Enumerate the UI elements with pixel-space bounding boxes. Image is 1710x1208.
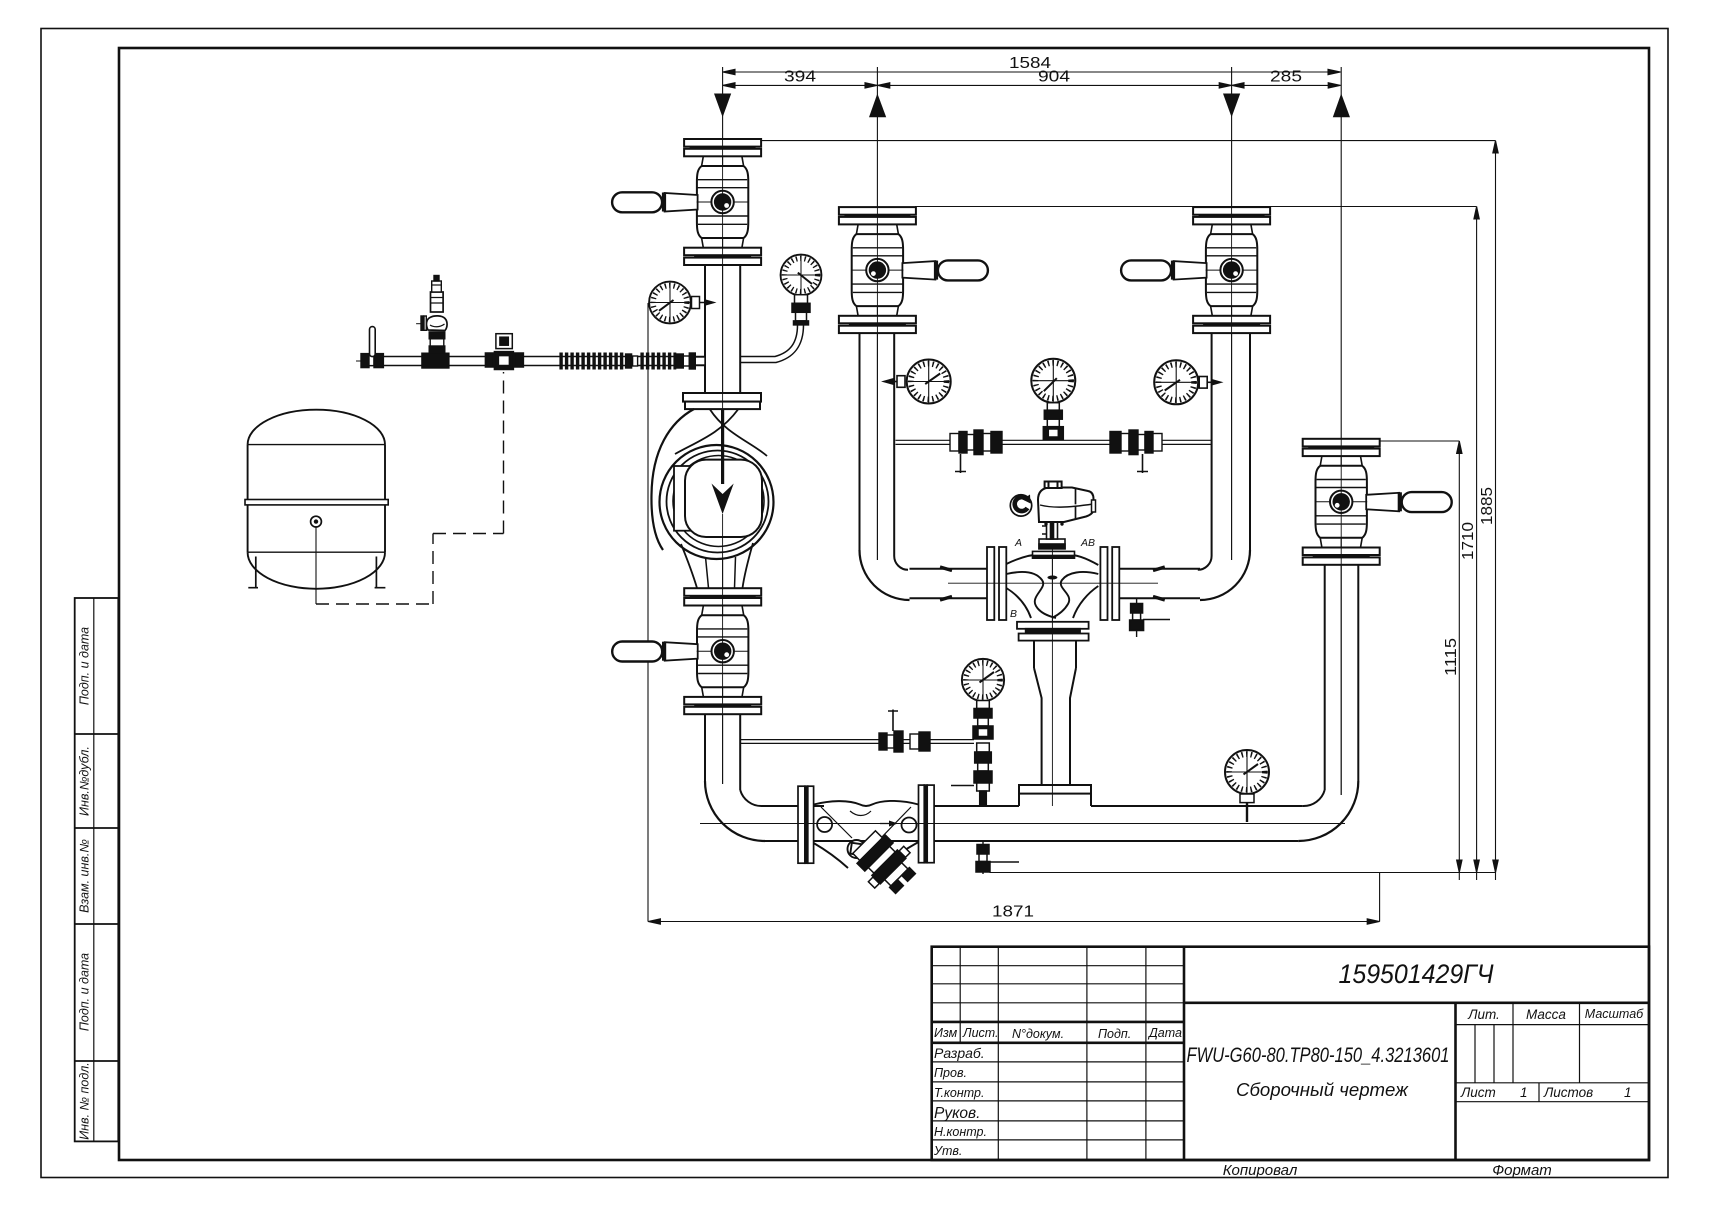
bottom pipe centreline [700,823,1345,825]
safety line pipe [361,357,705,366]
svg-text:A: A [1014,537,1022,549]
gauge PI4 above bottom pipe [962,659,1004,701]
pipe from valve port AB to elbow C [1119,569,1200,599]
svg-text:Масса: Масса [1526,1007,1566,1022]
svg-text:B: B [1010,608,1017,620]
rotation symbol [1010,495,1031,517]
svg-text:FWU-G60-80.TP80-150_4.3213601: FWU-G60-80.TP80-150_4.3213601 [1187,1044,1450,1067]
flexible hose section 1 [559,353,624,370]
svg-text:Копировал: Копировал [1223,1162,1298,1179]
svg-text:1: 1 [1624,1085,1632,1100]
gauge PI4 impulse stack down to pipe [951,701,993,807]
svg-text:1115: 1115 [1443,638,1460,676]
svg-text:Лист.: Лист. [962,1026,999,1040]
strainer Y-leg blind flange [846,824,923,901]
three-way control valve flange AB [1100,547,1119,620]
svg-text:904: 904 [1038,69,1070,86]
gauge PI6 left of column A [649,282,691,324]
T-junction base [1019,785,1091,806]
impulse line valve set right [1110,430,1162,473]
svg-text:Т.контр.: Т.контр. [934,1086,984,1100]
svg-text:Масштаб: Масштаб [1585,1007,1644,1021]
svg-text:285: 285 [1270,69,1302,86]
centerline column C [1231,67,1233,560]
ball valve V5 right column D [1303,439,1452,565]
centerline column D [1340,67,1342,795]
svg-text:Подп.: Подп. [1098,1027,1131,1041]
bottom dimension 1871 [648,303,1380,924]
elbow column B to centre [860,550,910,600]
actuator stem [1042,522,1058,539]
svg-text:159501429ГЧ: 159501429ГЧ [1339,959,1495,989]
svg-text:Листов: Листов [1543,1085,1593,1100]
gauge PI3 stem [1199,377,1223,389]
elbow bottom-left column A [705,781,765,841]
pipe from elbow B to valve port A [910,569,988,599]
svg-text:Лит.: Лит. [1467,1007,1500,1022]
gauge PI3 on column C [1154,360,1198,404]
title block small labels [933,1026,1182,1158]
left margin column labels [78,627,92,1140]
flexible hose section 2 [640,353,676,370]
bottom horizontal pipe [762,806,1303,841]
flow arrow outlet D [1333,94,1350,118]
dashed connection line tank to expansion tee [316,372,504,604]
ball valve V1 top of column A [612,139,761,265]
pipe below valve B port [1034,641,1076,785]
drain valve under AB pipe [1130,598,1170,637]
pipe column D down [1325,565,1359,790]
dimension line 1885 [1493,141,1498,880]
gauge PI1 stem [881,376,905,388]
top dimension line 1584 [723,69,1341,74]
gauge PI2 centre [1031,359,1075,403]
siphon tube [741,325,804,363]
safety valve SV1 [416,276,449,369]
svg-text:Н.контр.: Н.контр. [934,1125,987,1139]
gauge PI1 on column B [907,360,951,404]
expansion tank [245,410,388,604]
ball valve V3 column B [839,207,988,333]
svg-text:Утв.: Утв. [933,1144,962,1158]
svg-text:N°докум.: N°докум. [1012,1027,1064,1041]
gauge PI7 with siphon tube [781,255,822,296]
pump flow arrow [712,484,734,515]
strainer drain plug [848,840,866,858]
impulse line valve set left [950,430,1002,473]
title block main labels [1187,959,1645,1179]
left margin column cells [75,598,119,1141]
actuator body [1038,482,1096,526]
centerline column A [722,67,724,784]
svg-text:1885: 1885 [1479,487,1496,525]
svg-text:Дата: Дата [1147,1026,1182,1040]
hose end fittings [676,353,705,369]
elbow column C to centre [1200,550,1250,600]
three-way valve bottom flange B [1017,622,1089,641]
title block grid [932,947,1649,1160]
pipe column A valve1 to pump [705,265,740,393]
svg-text:Подп. и дата: Подп. и дата [78,953,92,1031]
svg-text:Разраб.: Разраб. [934,1045,985,1061]
hose union [626,354,638,368]
svg-text:394: 394 [784,69,816,86]
ball valve V4 column C (handle left) [1121,207,1270,333]
right dimension extension lines [762,141,1496,441]
impulse line ball valve [879,710,930,753]
gauge PI5 on bottom pipe right [1225,750,1269,794]
svg-text:Формат: Формат [1492,1162,1552,1179]
svg-text:AB: AB [1080,537,1095,549]
reducer weld marks left [940,567,952,600]
impulse line between columns [896,440,1212,444]
centerline column B [876,67,878,560]
strainer left flange [798,786,814,863]
strainer flow arrow [880,823,891,825]
dimension line 1115 [1457,441,1462,880]
elbow bottom column D [1298,781,1358,841]
flow arrow outlet B [869,94,886,118]
pump P1 [651,393,773,588]
svg-text:Лист: Лист [1460,1085,1496,1100]
gauge PI6 stem [692,297,717,309]
svg-text:Инв. № подл.: Инв. № подл. [78,1062,92,1140]
gauge PI5 stem [1240,794,1254,822]
flow arrow inlet A [714,94,731,118]
valve bonnet [1033,539,1075,558]
svg-text:Взам. инв.№: Взам. инв.№ [78,839,92,913]
safety line shut-off valve with rod [361,327,383,368]
svg-text:Изм: Изм [934,1026,958,1040]
svg-text:1: 1 [1520,1085,1528,1100]
reducer weld marks right [1153,567,1165,600]
svg-text:Инв.№дубл.: Инв.№дубл. [78,746,92,816]
pipe column C down [1212,333,1250,556]
gauge PI2 needle valve stack [1043,403,1063,440]
impulse line from column A to PI4 [740,740,974,744]
drain outlet line [990,872,1496,874]
dimension line 1710 [1474,207,1479,881]
strainer body [814,801,919,870]
three-way control valve flange A [987,547,1006,620]
svg-text:Руков.: Руков. [934,1105,980,1122]
expansion line tee [485,334,523,370]
svg-text:Подп. и дата: Подп. и дата [78,627,92,705]
top chain dimension line 394 / 904 / 285 [723,83,1341,88]
ball valve V2 lower column A [612,588,761,714]
svg-text:Сборочный чертеж: Сборочный чертеж [1236,1080,1410,1100]
pipe column B down [860,333,895,556]
drain valve under bottom pipe [976,841,1019,874]
svg-text:Пров.: Пров. [934,1066,967,1080]
svg-text:1871: 1871 [992,904,1034,921]
three-way control valve body [1006,555,1098,641]
svg-text:1710: 1710 [1460,522,1477,560]
pipe column A below valve2 [705,714,740,790]
centreline overlays [700,139,1345,824]
strainer right flange [919,785,935,863]
flow arrow inlet C [1223,94,1240,118]
